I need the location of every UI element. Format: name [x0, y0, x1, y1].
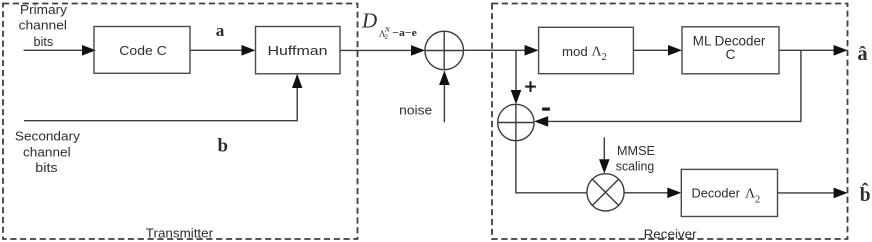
block mod Lambda2 [539, 27, 634, 73]
svg-text:2: 2 [755, 194, 760, 205]
wire multiplier to Decoder Lambda2 [624, 192, 669, 194]
wire Code C to Huffman [190, 49, 243, 51]
svg-text:Code C: Code C [119, 43, 167, 58]
svg-text:mod: mod [562, 44, 588, 59]
svg-text:N: N [384, 26, 390, 34]
svg-text:Huffman: Huffman [268, 43, 328, 58]
svg-text:MMSE: MMSE [617, 143, 655, 158]
block Code C [94, 27, 190, 74]
wire ML Decoder to a-hat output (junction node at x=800.9) [779, 49, 836, 51]
label D lattice expression [361, 9, 417, 41]
wire Decoder Lambda2 to b-hat output [778, 192, 836, 194]
wire primary input into Code C [24, 49, 84, 51]
svg-text:bits: bits [35, 161, 57, 175]
wire feedback from junction down and left into adder S2 [547, 50, 801, 121]
svg-text:Decoder: Decoder [692, 186, 741, 201]
wire MMSE scaling into multiplier [603, 137, 605, 161]
svg-text:â: â [857, 43, 867, 65]
label plus [525, 81, 536, 92]
receiver dashed enclosure [492, 4, 848, 240]
block ML Decoder C [682, 27, 779, 74]
svg-text:C: C [726, 47, 736, 62]
wire noise into adder S1 [443, 83, 445, 122]
wire adder S1 to mod block (junction node at x=516.5) [464, 49, 527, 51]
svg-text:b̂: b̂ [860, 184, 871, 206]
adder S2 [498, 104, 534, 140]
svg-text:bits: bits [34, 35, 54, 49]
svg-text:2: 2 [602, 52, 607, 63]
svg-text:Transmitter: Transmitter [146, 226, 214, 241]
wire mod to ML Decoder [633, 49, 670, 51]
svg-text:noise: noise [399, 103, 432, 118]
multiplier M1 [587, 174, 624, 211]
svg-text:b: b [218, 135, 229, 156]
block Huffman [256, 27, 341, 74]
block Decoder Lambda2 [681, 169, 777, 216]
transmitter dashed enclosure [3, 4, 358, 240]
svg-text:Receiver: Receiver [644, 226, 698, 241]
svg-text:channel: channel [19, 19, 67, 33]
svg-text:−a−e: −a−e [392, 27, 417, 39]
wire Huffman to adder S1 [340, 49, 413, 51]
wire junction down into adder S2 top [515, 50, 517, 92]
svg-text:a: a [216, 21, 225, 40]
svg-text:D: D [361, 9, 377, 33]
svg-text:Secondary: Secondary [15, 129, 81, 143]
wire secondary input b into Huffman bottom [24, 86, 297, 121]
wire adder S2 to multiplier M1 [516, 141, 587, 193]
svg-text:scaling: scaling [616, 159, 654, 174]
label minus [542, 108, 550, 111]
svg-text:Primary: Primary [20, 3, 68, 17]
svg-text:channel: channel [23, 145, 71, 159]
adder S1 [425, 31, 464, 70]
